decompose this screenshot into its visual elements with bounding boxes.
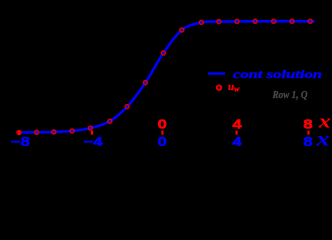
- svg-text:4: 4: [232, 117, 242, 132]
- svg-text:8: 8: [303, 117, 312, 132]
- svg-text:cont solution: cont solution: [233, 69, 322, 81]
- svg-text:0: 0: [157, 135, 166, 146]
- svg-text:4: 4: [232, 135, 242, 146]
- svg-text:−4: −4: [83, 135, 103, 146]
- svg-text:x: x: [315, 128, 330, 146]
- svg-text:0: 0: [157, 117, 166, 132]
- svg-text:8: 8: [303, 135, 312, 146]
- svg-text:−8: −8: [11, 135, 30, 146]
- svg-text:Row 1, Q: Row 1, Q: [272, 90, 308, 101]
